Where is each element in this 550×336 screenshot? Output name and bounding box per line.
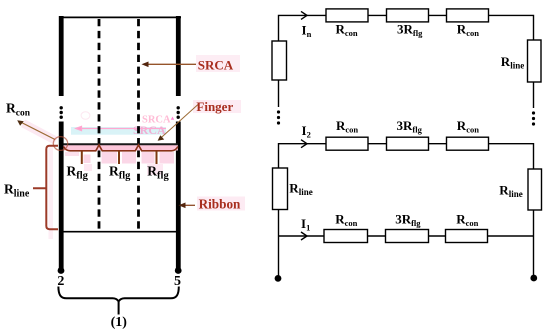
terminal dot right (530, 275, 537, 282)
resistor R_con (I_1 left) (324, 230, 368, 243)
wire left bus below top R_line (278, 80, 280, 107)
ghost cyan highlight band (71, 127, 166, 135)
current arrow I_2 (301, 140, 307, 148)
resistor R_line (bottom right) (528, 169, 542, 210)
wire right bus below bottom R_line (533, 210, 535, 278)
ribbon right bar break dots (177, 106, 180, 119)
finger drop line 3 (156, 151, 158, 164)
terminal dot left (275, 275, 282, 282)
busbar top line (59, 16, 181, 18)
finger drop line 1 (81, 151, 83, 164)
wire between R_con and 3R_flg (I_n) (368, 14, 387, 16)
resistor 3R_flg (I_n) (387, 9, 429, 22)
resistor R_line (top left) (272, 41, 287, 80)
ghost pink highlight behind SRCA label (196, 55, 240, 72)
wire I_1 row (279, 235, 325, 237)
ribbon left bar upper segment (59, 16, 64, 96)
svg-text:Ribbon: Ribbon (199, 196, 241, 211)
wire between boxes I_2 (368, 143, 387, 145)
ghost pink arrow (76, 126, 166, 130)
wire R_con to right corner (I_n) (489, 15, 534, 40)
ghost magenta triangle near right bar (171, 117, 174, 120)
finger band top black line (64, 143, 178, 145)
brace under terminals (58, 287, 178, 302)
finger band pink fill (64, 145, 178, 151)
wire right bus below top R_line (533, 82, 535, 108)
R_con arrow to circled junction (17, 120, 55, 139)
SRCA dashed line left (98, 19, 101, 232)
resistor 3R_flg (I_2) (387, 137, 429, 150)
resistor R_con (I_1 right) (446, 230, 488, 243)
finger band bottom outline with contact tents (64, 145, 178, 151)
wire between boxes I_1 (368, 235, 386, 237)
wire between boxes I_1 right (429, 235, 446, 237)
ghost faint circle (81, 112, 90, 120)
Finger annotation line (158, 105, 198, 141)
resistor R_line (top right) (528, 40, 542, 82)
Ribbon annotation arrow (179, 203, 196, 209)
wire I_2 row left corner (279, 144, 327, 168)
resistor R_con (I_n right) (447, 9, 489, 22)
brace stem (118, 300, 120, 315)
R_line bracket (33, 146, 58, 229)
ribbon left bar lower segment (59, 122, 64, 269)
ribbon right bar end dot (175, 267, 182, 274)
ribbon right bar upper segment (176, 16, 181, 96)
ghost pink highlight behind Finger label (193, 100, 241, 113)
resistor R_line (bottom left) (273, 168, 288, 210)
ghost pink patch behind R_flg labels (84, 164, 92, 171)
resistor R_con (I_2 right) (447, 137, 489, 150)
circle around contact junction (53, 137, 67, 151)
ribbon right bar lower segment (176, 122, 181, 269)
resistor R_con (I_n left) (326, 9, 368, 22)
left bus break dots (277, 110, 280, 124)
ghost pink diagonal along R_con arrow (21, 120, 58, 145)
busbar bottom line (61, 231, 178, 233)
resistor R_con (I_2 left) (326, 137, 368, 150)
resistor 3R_flg (I_1) (386, 230, 429, 243)
wire between boxes I_2 right (429, 143, 447, 145)
current arrow I_1 (301, 232, 307, 240)
wire left bus below bottom R_line (278, 210, 280, 279)
ribbon left bar break dots (60, 106, 63, 119)
ghost pink smear left of left bar (49, 147, 54, 239)
ghost pink highlight behind Ribbon label (197, 197, 245, 211)
svg-text:5: 5 (174, 274, 181, 289)
ribbon left bar end dot (58, 267, 65, 274)
current arrow I_n (301, 11, 307, 19)
finger drop line 2 (118, 151, 120, 164)
wire between 3R_flg and R_con (I_n) (429, 14, 447, 16)
wire I_2 to right bus (489, 144, 534, 169)
SRCA dashed line right (137, 19, 140, 232)
ghost pink strip below finger band (65, 152, 174, 164)
svg-text:(1): (1) (111, 315, 128, 330)
SRCA annotation arrow (142, 62, 197, 68)
svg-text:SRCA: SRCA (198, 57, 234, 72)
wire I_n row (279, 15, 327, 41)
right bus break dots (532, 111, 535, 125)
svg-text:Finger: Finger (196, 99, 233, 114)
wire I_1 to right bus (488, 235, 534, 237)
